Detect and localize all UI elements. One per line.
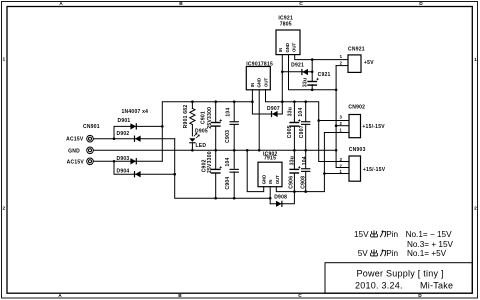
svg-text:CN921: CN921	[348, 46, 365, 52]
svg-text:D908: D908	[274, 194, 287, 200]
IC901 IN pin lead	[251, 90, 253, 114]
svg-text:A: A	[58, 293, 62, 299]
IC901 OUT pin lead and +15V line to CN903 pin3	[266, 90, 350, 162]
wire branch up to D901	[114, 126, 162, 138]
svg-text:1N4007 x4: 1N4007 x4	[122, 109, 149, 115]
wire GND rail from CN901 GND to GND riser	[93, 149, 336, 151]
svg-text:B: B	[178, 293, 182, 299]
capacitor C908 leads	[305, 150, 307, 191]
schematic wires and components	[87, 30, 473, 293]
svg-text:C907: C907	[299, 125, 305, 138]
svg-text:D907: D907	[267, 106, 280, 112]
wire GND riser CN921 pin2 / CN902 pin2 / CN903 pin2	[336, 66, 349, 168]
diode D921 line	[282, 71, 312, 73]
junction +15 CN902 pin3	[317, 119, 320, 122]
capacitor C908 plates	[301, 168, 310, 169]
svg-text:2: 2	[474, 206, 477, 212]
svg-text:Mi-Take: Mi-Take	[420, 280, 453, 290]
svg-text:IN: IN	[250, 83, 255, 87]
svg-text:33u: 33u	[303, 78, 309, 87]
junction +raw IC901 IN	[251, 100, 254, 103]
wire D901/D903 cathode riser and +raw rail to IC901 IN	[162, 102, 252, 162]
svg-text:2: 2	[2, 206, 5, 212]
svg-text:D904: D904	[117, 169, 130, 175]
capacitor C901 leads	[215, 102, 217, 151]
resistor R901 leads	[191, 102, 193, 136]
junction GND LED	[191, 149, 194, 152]
CN901 terminal GND	[87, 147, 94, 154]
svg-text:D: D	[418, 293, 422, 299]
capacitor C921 plates electrolytic	[307, 81, 317, 82]
LED D905 symbol	[189, 138, 195, 142]
svg-text:Pin: Pin	[386, 230, 398, 239]
diode D908 symbol	[276, 201, 282, 207]
svg-text:D921: D921	[291, 62, 304, 68]
svg-text:Power Supply [ tiny ]: Power Supply [ tiny ]	[357, 268, 444, 278]
diode D907 riser to +15V line	[281, 102, 283, 114]
svg-text:7805: 7805	[280, 22, 292, 28]
svg-text:C908: C908	[301, 176, 307, 189]
svg-text:AC15V: AC15V	[66, 137, 84, 143]
capacitor C901 plates electrolytic	[211, 122, 221, 123]
svg-text:No.3= + 15V: No.3= + 15V	[407, 240, 454, 249]
diode D907 symbol	[272, 111, 278, 117]
diode D901 symbol	[130, 123, 136, 129]
IC902 OUT pin lead and -15V line to CN902 pin1	[276, 133, 349, 192]
capacitor C906 leads	[293, 150, 295, 191]
junction GND IC902	[246, 149, 249, 152]
svg-text:IC9017815: IC9017815	[246, 62, 273, 68]
svg-text:C906: C906	[289, 176, 295, 189]
junction -15 CN903 pin1	[323, 172, 326, 175]
junction +15 C905	[293, 100, 296, 103]
junction node AC1 branch	[113, 137, 116, 140]
junction GND C907	[304, 149, 307, 152]
svg-text:R901 682: R901 682	[183, 105, 189, 129]
LED D905 lead to GND	[191, 143, 193, 150]
svg-text:104: 104	[298, 108, 304, 117]
svg-text:D903: D903	[117, 156, 130, 162]
svg-text:No.1= − 15V: No.1= − 15V	[406, 230, 453, 239]
svg-text:25V3300: 25V3300	[207, 151, 213, 173]
junction GND C901	[214, 149, 217, 152]
junction +raw C903	[233, 100, 236, 103]
diode D907 line	[252, 113, 282, 115]
svg-text:GND: GND	[257, 78, 262, 88]
CN921 connector box	[348, 55, 361, 73]
junction -15 C906 D908	[293, 190, 296, 193]
svg-text:D: D	[419, 1, 423, 7]
IC902 GND pin route to GND rail	[247, 150, 264, 191]
junction +raw R901	[191, 100, 194, 103]
svg-text:C904: C904	[225, 177, 231, 190]
capacitor C906 plates electrolytic	[289, 169, 299, 170]
IC901 GND pin lead	[258, 90, 260, 151]
capacitor C907 plates	[301, 121, 310, 122]
junction D921 cathode	[281, 71, 284, 74]
svg-text:OUT: OUT	[292, 43, 297, 52]
svg-text:D902: D902	[117, 131, 130, 137]
junction +15 IC921 IN	[281, 100, 284, 103]
junction node D904 riser	[173, 173, 176, 176]
svg-text:CN902: CN902	[348, 104, 365, 110]
junction +5V C921	[311, 58, 314, 61]
IC902 IN pin lead	[269, 187, 271, 204]
IC921 7805 box	[276, 30, 300, 55]
svg-text:IN: IN	[278, 48, 283, 52]
wire CN902 pin3 stub	[319, 120, 349, 122]
junction 5V GND C921	[311, 89, 314, 92]
svg-text:A: A	[59, 1, 63, 7]
junction D921 anode C921	[311, 71, 314, 74]
capacitor C904 plates	[230, 169, 239, 170]
svg-text:B: B	[179, 1, 183, 7]
svg-text:GND: GND	[68, 148, 80, 154]
junction GND C905	[293, 149, 296, 152]
capacitor C904 leads	[233, 150, 235, 198]
junction +15 C907	[304, 100, 307, 103]
svg-text:Pin: Pin	[386, 249, 398, 258]
diode D921 symbol	[302, 69, 308, 75]
svg-text:5V: 5V	[358, 249, 369, 258]
svg-text:+15/-15V: +15/-15V	[363, 167, 386, 173]
CN901 terminal AC15V top	[87, 135, 94, 142]
svg-text:OUT: OUT	[275, 175, 280, 184]
junction -15 C908	[304, 190, 307, 193]
junction node D901 riser	[161, 125, 164, 128]
diode D903 symbol	[130, 158, 136, 164]
svg-text:CN901: CN901	[83, 124, 100, 130]
IC921 IN pin lead down to +15V line	[281, 55, 283, 102]
svg-text:C: C	[298, 293, 302, 299]
capacitor C907 leads	[305, 102, 307, 151]
svg-text:OUT: OUT	[263, 78, 268, 87]
svg-text:15V: 15V	[354, 230, 369, 239]
title block box	[325, 263, 472, 294]
svg-text:C901: C901	[200, 111, 206, 124]
junction 5V GND riser	[335, 89, 338, 92]
diode D908 line and riser	[270, 192, 294, 204]
junction GND C903	[233, 149, 236, 152]
svg-text:104: 104	[225, 157, 231, 166]
svg-text:2010. 3.24.: 2010. 3.24.	[355, 280, 403, 290]
svg-text:C905: C905	[287, 125, 293, 138]
junction -raw IC902 IN	[269, 197, 272, 200]
junction GND CN902 pin2	[335, 124, 338, 127]
CN903 connector box	[349, 156, 361, 181]
junction -raw C902	[214, 197, 217, 200]
capacitor C902 plates electrolytic	[211, 169, 221, 170]
svg-text:C: C	[299, 1, 303, 7]
junction -raw C904	[233, 197, 236, 200]
svg-text:No.1= +5V: No.1= +5V	[407, 249, 447, 258]
svg-text:C921: C921	[318, 72, 331, 78]
diode D904 symbol	[135, 171, 141, 177]
svg-text:IN: IN	[268, 179, 273, 183]
svg-text:D901: D901	[118, 118, 131, 124]
capacitor C902 leads	[215, 150, 217, 198]
svg-text:GND: GND	[285, 43, 290, 53]
junction GND riser	[335, 149, 338, 152]
svg-text:C903: C903	[225, 130, 231, 143]
junction GND IC901	[258, 149, 261, 152]
capacitor C903 plates	[230, 121, 239, 122]
IC921 OUT pin lead and +5V line to CN921 pin1	[295, 55, 348, 60]
svg-text:104: 104	[302, 156, 308, 165]
wire D902/D904 anode riser and -raw rail to IC902 IN	[175, 139, 270, 199]
svg-text:1: 1	[474, 57, 477, 63]
junction +raw C901	[214, 100, 217, 103]
diode D902 symbol	[135, 136, 141, 142]
wire CN903 pin1 stub	[324, 173, 349, 175]
IC902 7915 box	[258, 162, 282, 187]
svg-text:33u: 33u	[290, 156, 296, 165]
LED D905 arrows	[194, 133, 199, 138]
capacitor C903 leads	[233, 102, 235, 151]
svg-text:33u: 33u	[288, 107, 294, 116]
capacitor C905 leads	[293, 102, 295, 151]
IC901 7815 box	[246, 67, 270, 90]
resistor R901 zigzag	[190, 108, 195, 124]
junction node AC2 branch	[113, 160, 116, 163]
wire branch down to D904	[114, 161, 175, 174]
IC921 GND pin lead and 5V GND line	[289, 55, 337, 90]
svg-text:AC15V: AC15V	[67, 160, 85, 166]
svg-text:D905: D905	[195, 129, 208, 135]
capacitor C921 leads	[311, 60, 313, 90]
capacitor C905 plates electrolytic	[289, 122, 299, 123]
svg-text:25V3300: 25V3300	[207, 107, 213, 129]
svg-text:+5V: +5V	[364, 60, 374, 66]
svg-text:GND: GND	[262, 175, 267, 185]
svg-text:CN903: CN903	[349, 147, 366, 153]
svg-text:1: 1	[2, 57, 5, 63]
svg-text:+15/-15V: +15/-15V	[362, 124, 385, 130]
svg-text:7915: 7915	[264, 156, 276, 162]
CN902 connector box	[349, 115, 361, 138]
svg-text:LED: LED	[196, 143, 207, 149]
wire AC1: CN901 AC15V top to D902 then down to -raw rail corner	[93, 138, 174, 140]
CN901 terminal AC15V bottom	[87, 158, 94, 165]
svg-text:104: 104	[225, 108, 231, 117]
wire AC2: CN901 AC15V bottom to D903 riser	[93, 160, 162, 162]
wire CN902 pin2 stub	[336, 125, 349, 127]
wire CN921 pin2 stub	[336, 65, 348, 67]
